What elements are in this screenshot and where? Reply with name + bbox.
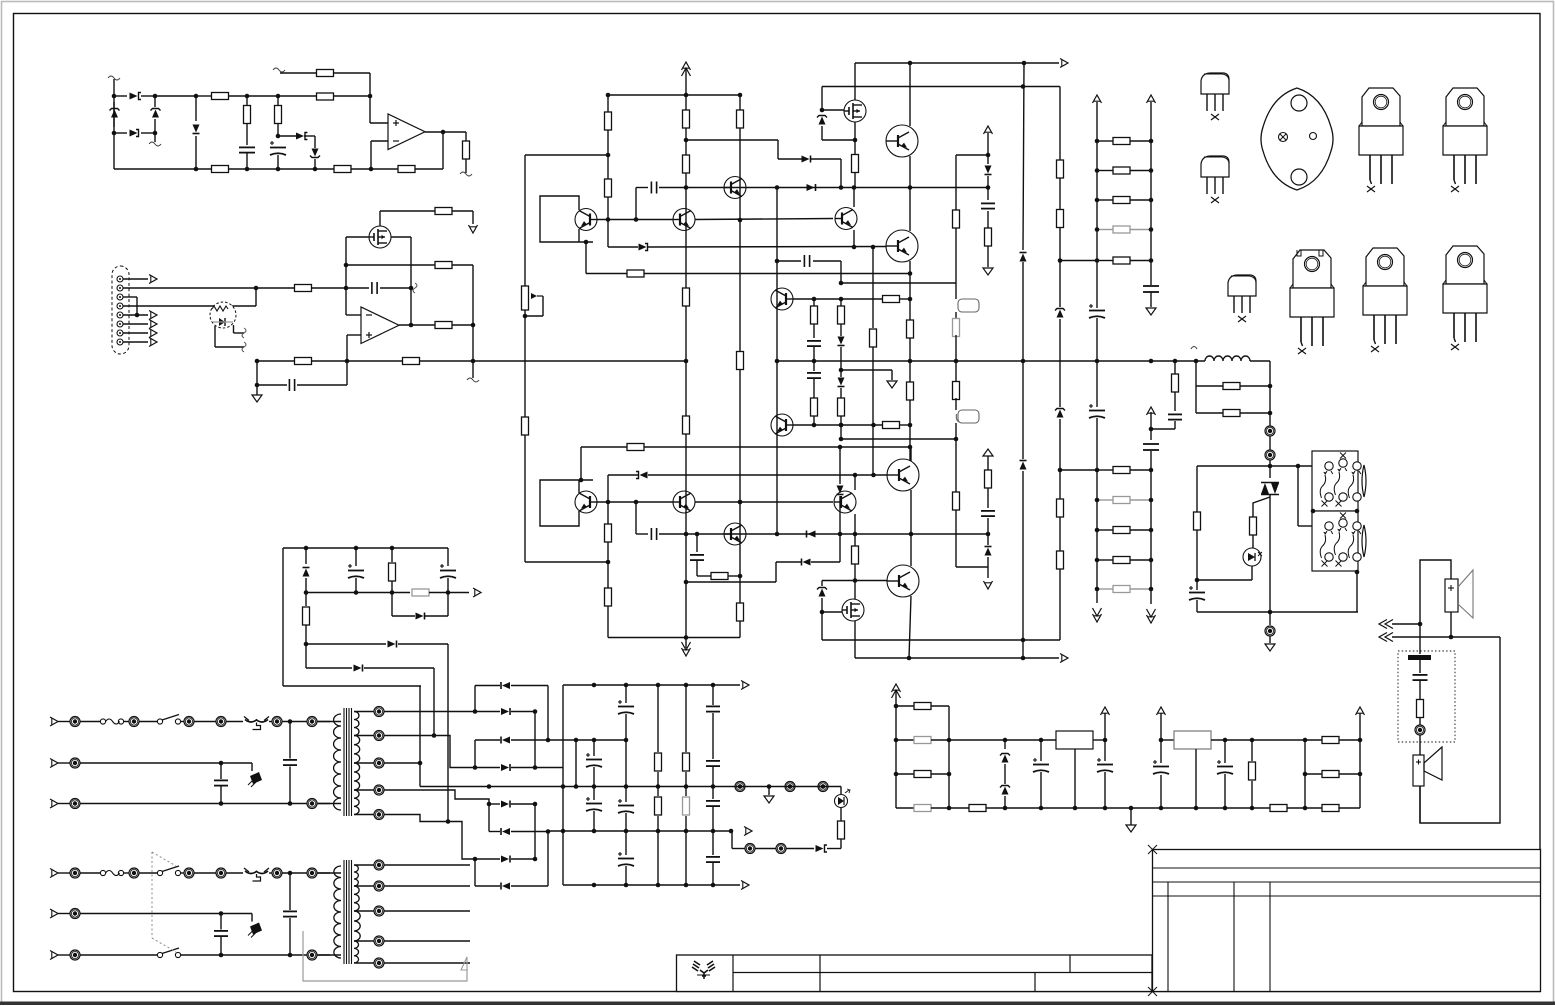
node (908, 61, 913, 66)
resistor R45 (1057, 160, 1064, 178)
node (684, 532, 689, 537)
arrow pin1 (149, 275, 157, 284)
resistor R41 (953, 382, 960, 400)
capacitor C11 (651, 528, 656, 540)
node (839, 185, 844, 190)
node (894, 704, 899, 709)
wire (575, 740, 577, 787)
package TO-220 #4 (1363, 248, 1407, 352)
wire (355, 548, 357, 566)
node (838, 445, 843, 450)
node (592, 738, 597, 743)
arrow mains E (50, 799, 58, 808)
node (871, 245, 876, 250)
wire (452, 324, 473, 326)
terminal (184, 868, 194, 878)
transformer T3 core (344, 860, 352, 964)
wire (220, 763, 222, 779)
resistor R44 (985, 470, 992, 488)
wire (410, 237, 412, 325)
wire pin5 (123, 314, 148, 316)
wire (987, 488, 989, 508)
triac (1261, 483, 1279, 495)
wire (1130, 559, 1151, 561)
wire (370, 122, 388, 124)
wire (214, 326, 216, 347)
wire (1196, 466, 1198, 512)
node (313, 167, 318, 172)
connector pin 1 (117, 276, 123, 282)
wire (251, 763, 253, 771)
wire (909, 63, 911, 126)
resistor R21 (683, 155, 690, 173)
wire (1298, 525, 1312, 527)
wire (226, 721, 243, 723)
wire (625, 685, 627, 703)
wire gate (822, 109, 844, 111)
node (634, 500, 639, 505)
wire (786, 848, 814, 850)
wire tap4 step (384, 790, 489, 804)
wire (955, 423, 957, 439)
op-amp U1 (388, 114, 425, 150)
terminal (70, 909, 80, 919)
node (254, 286, 259, 291)
diode D31 (416, 613, 425, 620)
node (908, 423, 913, 428)
wire (1197, 579, 1252, 581)
wire (1104, 772, 1106, 808)
wire (840, 839, 842, 849)
node (1095, 198, 1100, 203)
arrow mains N (50, 759, 58, 768)
node (947, 806, 952, 811)
node (684, 883, 689, 888)
wire (525, 315, 543, 317)
node (684, 829, 689, 834)
power transistor Q6 (886, 230, 918, 262)
terminal (307, 868, 317, 878)
arrow (741, 881, 749, 890)
wire (1269, 460, 1271, 478)
wire (277, 124, 279, 136)
wire (1097, 260, 1113, 262)
diode D6 (807, 184, 816, 191)
transformer T3 secondary 4 (354, 941, 359, 963)
node (839, 368, 844, 373)
resistor R19 (522, 417, 529, 435)
wire x1023 (1023, 63, 1024, 250)
wire (1097, 529, 1113, 531)
node (656, 883, 661, 888)
wire (1196, 530, 1198, 590)
capacitor C9 (981, 203, 995, 208)
wire (840, 808, 842, 821)
node (1021, 84, 1026, 89)
wire (1252, 535, 1254, 548)
resistor ladder R72 (1113, 527, 1130, 534)
arrow pin5 (149, 311, 157, 320)
wire (987, 133, 989, 164)
wire (452, 210, 473, 212)
wire (1419, 681, 1421, 699)
arrow pin6 (149, 320, 157, 329)
regulator U4 (1056, 731, 1093, 749)
wire regulator gnd (1074, 749, 1076, 808)
wire (1339, 773, 1360, 775)
zener Z9 (1000, 786, 1010, 795)
wire (685, 772, 687, 796)
wire (1059, 319, 1061, 407)
ground (983, 268, 993, 275)
potentiometer P1 (522, 286, 529, 310)
terminal (307, 799, 317, 809)
wire (1097, 588, 1113, 590)
node (711, 829, 716, 834)
wire (1097, 170, 1113, 172)
transformer T3 tap 4 (374, 936, 384, 946)
wire (181, 872, 184, 874)
wire (840, 787, 842, 795)
wire (354, 962, 374, 964)
wire (380, 287, 411, 289)
wire (607, 475, 609, 524)
wire (813, 379, 815, 398)
resistor R38 (838, 398, 845, 416)
wire (580, 447, 582, 480)
wire (80, 762, 252, 764)
node (473, 709, 478, 714)
node (579, 478, 584, 483)
wire x420 (419, 686, 421, 787)
wire (511, 711, 535, 713)
transistor Q8 (771, 414, 793, 436)
wire (278, 95, 316, 97)
wire (657, 816, 659, 885)
node (354, 546, 359, 551)
wire (1150, 451, 1152, 604)
node (1250, 738, 1255, 743)
node (624, 683, 629, 688)
node (523, 314, 528, 319)
wire (597, 501, 673, 503)
wire rail (986, 807, 1360, 809)
wire (351, 168, 398, 170)
node (1073, 806, 1078, 811)
transistor Q10 (673, 491, 695, 513)
wire (542, 296, 544, 316)
rectifier diode D26 (501, 856, 510, 863)
wire (472, 265, 474, 325)
node (1149, 359, 1154, 364)
arrow (473, 588, 481, 597)
wire (778, 158, 802, 160)
wire (289, 767, 291, 804)
wire (593, 740, 595, 756)
node (276, 167, 281, 172)
wire (511, 685, 548, 687)
node (153, 131, 158, 136)
node (624, 784, 629, 789)
wire (1130, 229, 1151, 231)
wire (840, 324, 842, 336)
transistor Q9 (575, 491, 597, 513)
terminal (216, 717, 226, 727)
node (1095, 498, 1100, 503)
wire (644, 273, 910, 275)
wire (1097, 199, 1113, 201)
transformer T2 tap 5 (374, 810, 384, 820)
arrow (741, 681, 749, 690)
wire output (425, 131, 466, 133)
diode D30 (303, 568, 310, 577)
wire (955, 510, 957, 567)
wire pin8 (123, 341, 148, 343)
wire (379, 211, 381, 226)
node (354, 590, 359, 595)
ground (764, 796, 774, 803)
wire (1093, 739, 1105, 741)
transformer T2 tap 1 (374, 707, 384, 717)
wire (955, 398, 957, 410)
resistor R27 (bridge) (737, 352, 744, 370)
fuse F1 (100, 719, 123, 724)
capacitor C1 (239, 147, 255, 152)
ground break (467, 378, 479, 382)
wire gate (822, 611, 842, 613)
wire (854, 564, 856, 599)
resistor R64 (914, 805, 931, 812)
capacitor C5 (651, 182, 656, 194)
wire (931, 773, 949, 775)
node (684, 683, 689, 688)
node (1095, 168, 1100, 173)
wire (442, 132, 444, 169)
node (194, 94, 199, 99)
wire to +in (369, 96, 371, 123)
resistor R56 (1172, 374, 1179, 392)
wire (896, 807, 914, 809)
wire (354, 735, 374, 737)
wire bottom rail (114, 168, 212, 170)
node (219, 801, 224, 806)
wire (524, 435, 526, 562)
wire (1130, 140, 1151, 142)
wire (534, 712, 536, 768)
wire (909, 156, 911, 231)
resistor ladder R64 (1113, 257, 1130, 264)
resistor R47 (1057, 499, 1064, 517)
wire (608, 474, 638, 476)
transformer T2 primary (334, 714, 341, 810)
wire (113, 102, 115, 127)
resistor R28 (737, 603, 744, 621)
package TO-220 #5 (1443, 246, 1487, 350)
wire (1060, 260, 1097, 262)
wire x777 (776, 188, 778, 451)
capacitor C20 (1097, 758, 1113, 772)
wire (355, 578, 357, 593)
wire (1096, 418, 1098, 603)
wire (511, 767, 535, 769)
diode D7 (639, 244, 648, 251)
border bottom band (0, 1002, 1555, 1006)
node (1194, 806, 1199, 811)
wire (80, 872, 100, 874)
wire (839, 534, 841, 562)
node (839, 281, 844, 286)
wire tap stub (384, 864, 470, 866)
wire (114, 95, 127, 97)
wire (246, 153, 248, 169)
wire x896 (895, 691, 897, 808)
wire (811, 561, 840, 563)
wire (821, 612, 823, 640)
wire (585, 242, 587, 274)
wire (1040, 740, 1042, 761)
wire (251, 914, 253, 922)
chassis terminal (1265, 626, 1275, 636)
node (1223, 806, 1228, 811)
wire (931, 739, 1056, 741)
node (1250, 806, 1255, 811)
wire tap3 (384, 762, 420, 764)
transformer T2 secondary 4 (354, 790, 359, 815)
wire (1130, 499, 1151, 501)
resistor R8 (398, 166, 415, 173)
wire (139, 872, 157, 874)
minus mark (366, 314, 372, 316)
node (1149, 528, 1154, 533)
wire signal line (257, 360, 295, 362)
node (390, 590, 395, 595)
zener Z3 (310, 149, 320, 158)
wire (1130, 808, 1132, 825)
wire (1040, 772, 1042, 808)
transistor Q1 (575, 209, 597, 231)
capacitor C10 (981, 511, 995, 516)
wire (1104, 740, 1106, 761)
terminal (818, 782, 828, 792)
connector pin 8 (117, 339, 123, 345)
wire x434 (433, 668, 435, 736)
capacitor C33 (440, 564, 456, 578)
wire (685, 816, 687, 885)
resistor ladder R70 (1113, 467, 1130, 474)
wire (739, 128, 741, 352)
node (624, 829, 629, 834)
wire (317, 721, 330, 723)
wire (697, 575, 711, 577)
wire (317, 721, 341, 723)
wire (827, 848, 841, 850)
wire tap stub (384, 962, 470, 964)
wire (257, 384, 287, 386)
wire (1059, 87, 1061, 161)
wire (776, 450, 778, 534)
wire (1250, 360, 1270, 362)
connector pin 6 (117, 321, 123, 327)
resistor R10 (295, 285, 312, 292)
wire (685, 306, 687, 416)
terminal (1415, 725, 1425, 735)
wire (489, 803, 500, 805)
wire tap stub (384, 940, 470, 942)
wire (854, 140, 856, 154)
wire (931, 705, 949, 707)
wire (1419, 735, 1421, 755)
fuse F2 (100, 870, 123, 875)
resistor ladder R60 (1113, 138, 1130, 145)
resistor R62 (914, 737, 931, 744)
wire (346, 287, 369, 289)
wire (657, 772, 659, 796)
capacitor C28 (706, 706, 720, 711)
node (1149, 258, 1154, 263)
wire bus x686 (685, 69, 687, 110)
transformer T3 tap 1 (374, 860, 384, 870)
node (852, 245, 857, 250)
wire (1419, 624, 1421, 654)
resistor R76 (303, 607, 310, 625)
terminal (776, 844, 786, 854)
wire (1392, 636, 1500, 638)
resistor R48 (1057, 551, 1064, 569)
node (908, 271, 913, 276)
terminal (216, 868, 226, 878)
wire (840, 416, 842, 439)
wire speaker loop (1420, 560, 1451, 624)
node (561, 829, 566, 834)
wire (1130, 260, 1151, 262)
rectifier diode D21 (501, 708, 510, 715)
capacitor C17 (1168, 414, 1182, 419)
resistor R71 (655, 753, 662, 771)
wire (346, 361, 348, 385)
node (684, 359, 689, 364)
node (853, 532, 858, 537)
chassis terminal (1265, 450, 1275, 460)
wire rail top (855, 62, 1059, 64)
node (441, 130, 446, 135)
wire (607, 606, 609, 638)
package TO-92 #2 (1201, 156, 1229, 203)
wire top rail (155, 95, 196, 97)
wire (768, 787, 770, 796)
node (1022, 61, 1027, 66)
terminal (129, 868, 139, 878)
node (853, 473, 858, 478)
node (1149, 427, 1154, 432)
resistor R36 (811, 398, 818, 416)
wire (1419, 786, 1421, 823)
capacitor C27 (618, 852, 634, 866)
wire out (399, 324, 435, 326)
capacitor C32 (348, 564, 364, 578)
wire (306, 667, 352, 669)
wire (415, 168, 443, 170)
wire (813, 299, 815, 306)
wire (472, 211, 474, 224)
node (112, 131, 117, 136)
node (1159, 806, 1164, 811)
wire (948, 706, 950, 808)
zener Z4 (817, 116, 827, 125)
node (1358, 738, 1363, 743)
wire (228, 95, 247, 97)
terminal (745, 844, 755, 854)
transformer T3 secondary 3 (354, 911, 360, 941)
